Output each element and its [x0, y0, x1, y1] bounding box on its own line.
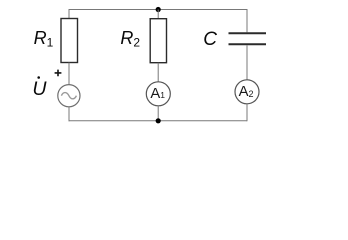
resistor R2: [150, 19, 166, 63]
source U1 circle: [58, 85, 80, 107]
source sine wave: [61, 93, 76, 99]
wire middle branch top stub: [157, 10, 159, 19]
svg-text:R1: R1: [34, 28, 54, 50]
plus polarity mark: [55, 70, 62, 77]
wire A1 to bottom: [157, 106, 159, 121]
wire R1 to source: [68, 63, 70, 85]
U derivative dot: [37, 76, 40, 79]
ammeter A1: [146, 82, 170, 106]
wire right branch top: [246, 9, 248, 32]
svg-text:U: U: [32, 78, 47, 100]
svg-text:C: C: [203, 29, 217, 50]
wire C to A2: [246, 45, 248, 80]
wire left branch top stub: [68, 9, 70, 19]
capacitor C: [229, 33, 267, 44]
svg-text:R2: R2: [120, 28, 140, 50]
wire R2 to A1: [157, 63, 159, 82]
node top junction: [156, 7, 161, 12]
node bottom junction: [156, 118, 161, 123]
resistor R1: [61, 19, 78, 63]
ammeter A2: [235, 80, 259, 104]
wire source to bottom: [68, 107, 70, 122]
wire bottom horizontal: [69, 120, 248, 122]
wire A2 to bottom: [246, 104, 248, 122]
wire top horizontal: [69, 9, 247, 11]
